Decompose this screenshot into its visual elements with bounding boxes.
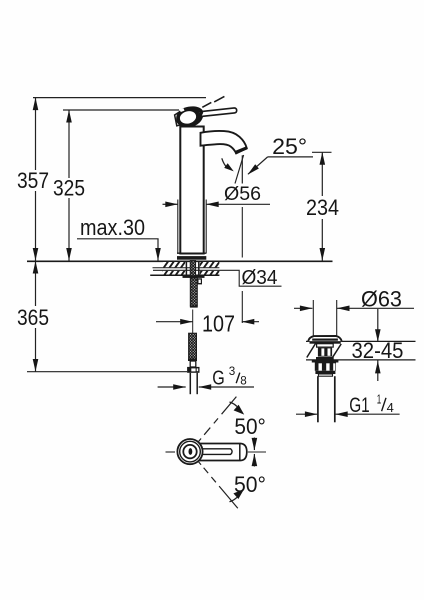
handle raised position phantom dash 2 [214, 96, 224, 102]
spout tip extension line mid segment [241, 207, 243, 258]
hose elbow block window [199, 280, 201, 283]
hose transition collar [188, 359, 197, 361]
drain body slotted section [318, 348, 332, 357]
basin deck top line (drain) [306, 340, 416, 342]
connector nut right window [197, 368, 199, 371]
countertop bottom line [150, 274, 219, 276]
dimension line 325 [68, 110, 70, 261]
lever arm end cap line [239, 444, 241, 460]
G3/8 dimension arrow left [158, 386, 186, 388]
spout aerator dark band [235, 146, 248, 154]
svg-text:50°: 50° [234, 472, 266, 497]
25 degree: leader line with arrowhead [248, 157, 268, 174]
Ø56 dimension arrows [163, 203, 178, 205]
drain tube right wall [334, 376, 336, 422]
nut slot 3 [333, 363, 335, 371]
svg-text:G1: G1 [349, 394, 370, 417]
shank through countertop: right wall [198, 261, 200, 276]
hose connector nut [187, 367, 199, 373]
G1 1/4 dimension arrow right with underline [335, 413, 399, 415]
hose nipple [190, 361, 196, 367]
handle knob top dark patch [192, 107, 202, 113]
boss centre slot [189, 448, 193, 455]
connector nut centre window [191, 368, 195, 371]
handle knob left flap [175, 111, 182, 126]
Ø63 extension line left [312, 300, 314, 336]
25 degree: rotation arc with arrowhead [222, 158, 227, 168]
svg-text:25°: 25° [272, 134, 307, 159]
handle lever rod [199, 108, 237, 117]
dimension line 234 [321, 152, 323, 260]
Ø63 dimension arrow right with underline [337, 307, 414, 309]
countertop hatched lower slab left of shank [162, 271, 185, 275]
wire: 325 extension line from handle knob top [63, 109, 179, 111]
lower 50deg arc arrowhead [230, 497, 238, 502]
Ø56 extension line right [205, 200, 207, 254]
svg-text:1: 1 [377, 391, 382, 406]
svg-text:Ø63: Ø63 [361, 286, 402, 311]
countertop slab split line upper [153, 267, 220, 269]
faucet body column [180, 127, 203, 254]
Ø63 extension line right [336, 300, 338, 336]
Ø34 leader from countertop hole [153, 270, 282, 286]
svg-text:max.30: max.30 [80, 215, 145, 240]
upper 50deg arc arrowhead [230, 402, 238, 407]
drain body lower bar [316, 357, 334, 360]
flexible hose braided segment [189, 333, 197, 359]
drain flange bar [310, 341, 341, 343]
svg-text:325: 325 [53, 176, 85, 201]
svg-text:50°: 50° [234, 414, 266, 439]
deck hatch stroke left of drain [307, 343, 316, 357]
G1 1/4 dimension arrow left [296, 413, 317, 415]
handle knob body [176, 106, 203, 127]
svg-text:3: 3 [229, 364, 236, 378]
lower 50deg swing dash-dot line [198, 461, 238, 508]
faucet base flange dark bar [177, 256, 206, 260]
top view handle boss middle circle [180, 441, 201, 462]
svg-text:234: 234 [306, 195, 339, 220]
handle knob dark diagonal [193, 110, 203, 126]
shank through countertop: left wall [185, 261, 187, 276]
drain castellated nut [315, 363, 336, 371]
svg-text:Ø56: Ø56 [224, 183, 261, 205]
hose lower plain segment left wall [189, 373, 191, 394]
mounting washer bar [183, 276, 205, 278]
234 top reference tick [312, 151, 332, 153]
svg-text:G: G [212, 367, 225, 389]
dimension line 365 [35, 261, 37, 372]
svg-text:365: 365 [17, 305, 49, 330]
nut bottom bar [315, 371, 335, 374]
32-45 upper arrow [377, 309, 379, 342]
wire: top extension line from raised handle (357 ref) [33, 97, 206, 99]
countertop hatched upper slab right of shank [200, 262, 220, 267]
handle knob white interior [179, 109, 198, 125]
top view handle boss outer circle [177, 439, 202, 464]
threaded mounting rod [190, 278, 197, 306]
svg-text:4: 4 [387, 401, 394, 415]
top view lever arm [198, 444, 247, 461]
handle raised position phantom dash 1 [202, 102, 211, 107]
hose end extension line [27, 371, 187, 373]
left centreline dash [166, 451, 176, 453]
dimension line 357 [35, 98, 37, 261]
hose elbow block right of rod [197, 278, 202, 284]
drain cap dome [308, 336, 341, 341]
25 degree: vertical reference line below spout tip (upper) [241, 155, 243, 183]
max.30 leader underline [77, 238, 159, 240]
threaded stud in shank [190, 261, 195, 277]
nut slot 1 [319, 363, 322, 371]
drain body upper section [317, 344, 334, 347]
right centreline [248, 451, 266, 453]
countertop hatched upper slab left of shank [163, 262, 185, 267]
svg-text:8: 8 [240, 373, 247, 387]
lever arm inner slot [200, 449, 232, 455]
hose lower plain segment right wall [196, 373, 198, 394]
svg-text:107: 107 [202, 310, 235, 336]
centre angle arrow lower [253, 454, 255, 467]
Ø56 extension line left [177, 200, 179, 254]
dimension line 107 right part [242, 321, 259, 323]
drain slot window 2 [328, 348, 331, 355]
drain cap base bar [312, 339, 338, 341]
countertop hatched lower slab right of shank [200, 271, 220, 275]
svg-text:32-45: 32-45 [352, 338, 404, 363]
centre angle arrow upper [253, 438, 255, 451]
faucet centreline segment [192, 310, 194, 334]
nut slot 2 [326, 363, 329, 371]
25deg underline [268, 156, 314, 158]
drain washer under deck [312, 360, 339, 363]
countertop top surface line [27, 260, 333, 262]
spout tip extension line lower segment [241, 291, 243, 323]
basin deck bottom line (drain) [306, 359, 416, 361]
upper 50deg swing dash-dot line [198, 397, 236, 442]
25 degree: tilted flow line from spout tip [235, 155, 244, 184]
deck hatch stroke right of drain [333, 344, 342, 357]
dimension line 107 left part [156, 321, 193, 323]
drain step collar [318, 374, 332, 376]
Ø63 dimension arrow left [294, 307, 312, 309]
threaded rod end cap [190, 306, 198, 308]
32-45 lower arrow [377, 361, 379, 382]
handle knob white nick top-left [180, 108, 185, 112]
drain slot window 1 [321, 348, 324, 355]
drain tube left wall [317, 376, 319, 422]
svg-text:Ø34: Ø34 [242, 267, 278, 289]
max.30 leader arrow to countertop [157, 239, 159, 261]
G3/8 dimension arrow right and underline [199, 386, 254, 388]
spout [201, 131, 247, 153]
top view handle boss inner circle [183, 445, 196, 458]
svg-text:357: 357 [17, 168, 49, 193]
faucet base flange top line [177, 252, 207, 254]
